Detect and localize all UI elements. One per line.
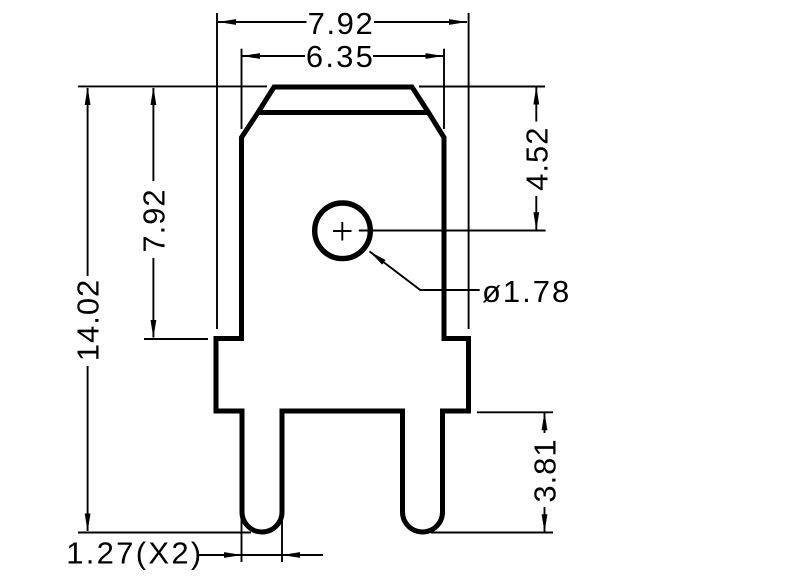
svg-text:3.81: 3.81 [528,438,563,502]
label 3.81 vertical [528,438,563,502]
extension line hole center right [359,230,546,232]
label 1.27(X2) [66,536,203,571]
svg-text:1.27(X2): 1.27(X2) [66,536,203,571]
label diameter 1.78 [482,274,571,309]
dimension 7.92 vertical [151,87,157,338]
extension line vertical right 6.35 width [443,49,445,129]
hole center mark [333,222,352,241]
label 4.52 vertical [519,127,554,191]
extension line vertical right 7.92 width [468,13,470,329]
extension line bottom right [431,532,553,534]
dimension 3.81 vertical [542,412,548,532]
extension line shoulder bottom right [477,411,553,413]
svg-text:7.92: 7.92 [136,188,171,252]
extension line pin left edge [241,510,243,562]
svg-text:7.92: 7.92 [308,6,375,41]
extension line bottom left [78,532,251,534]
dimension 7.92 horizontal [218,19,467,25]
svg-text:6.35: 6.35 [306,39,375,74]
extension line shoulder left [144,338,208,340]
terminal body outline [216,87,469,532]
extension line top right [419,86,545,88]
extension line top left [78,85,267,87]
tab chamfer line [258,110,429,115]
dimension 6.35 horizontal [242,53,444,59]
leader line hole diameter [370,251,480,290]
svg-text:4.52: 4.52 [519,127,554,191]
label 6.35 horizontal [306,39,375,74]
dimension 1.27 pin width [198,552,323,558]
dimension 4.52 vertical [533,87,539,231]
extension line vertical left 6.35 width [241,49,243,129]
svg-text:ø1.78: ø1.78 [482,274,571,309]
extension line pin right edge [281,510,283,562]
label 14.02 vertical [71,279,106,362]
label 7.92 vertical [136,188,171,252]
extension line vertical left 7.92 width [216,13,218,329]
dimension 14.02 vertical [85,87,91,532]
svg-text:14.02: 14.02 [71,279,106,362]
label 7.92 horizontal [308,6,375,41]
hole [315,203,371,259]
